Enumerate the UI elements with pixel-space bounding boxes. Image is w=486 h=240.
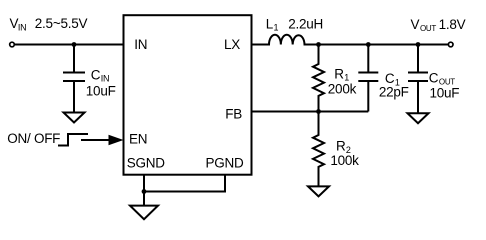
svg-text:R: R	[336, 139, 346, 154]
svg-text:SGND: SGND	[127, 156, 166, 171]
svg-text:200k: 200k	[328, 82, 357, 97]
svg-text:10uF: 10uF	[86, 84, 116, 99]
svg-text:C: C	[91, 67, 101, 82]
svg-text:OUT: OUT	[420, 24, 436, 33]
svg-text:10uF: 10uF	[430, 86, 460, 101]
svg-text:IN: IN	[18, 23, 27, 33]
svg-text:IN: IN	[101, 74, 110, 84]
svg-text:V: V	[411, 17, 420, 32]
svg-text:FB: FB	[225, 106, 242, 121]
svg-text:EN: EN	[129, 132, 147, 147]
svg-text:1: 1	[274, 23, 279, 33]
svg-text:100k: 100k	[330, 153, 359, 168]
svg-text:IN: IN	[134, 37, 147, 52]
svg-text:ON/ OFF: ON/ OFF	[7, 131, 60, 146]
svg-text:C: C	[429, 70, 439, 85]
svg-text:22pF: 22pF	[379, 84, 409, 99]
svg-text:LX: LX	[224, 37, 240, 52]
svg-text:1.8V: 1.8V	[439, 17, 466, 32]
svg-text:PGND: PGND	[206, 156, 245, 171]
svg-text:2.2uH: 2.2uH	[288, 16, 323, 31]
svg-text:2.5~5.5V: 2.5~5.5V	[35, 16, 88, 31]
svg-text:R: R	[334, 66, 344, 81]
